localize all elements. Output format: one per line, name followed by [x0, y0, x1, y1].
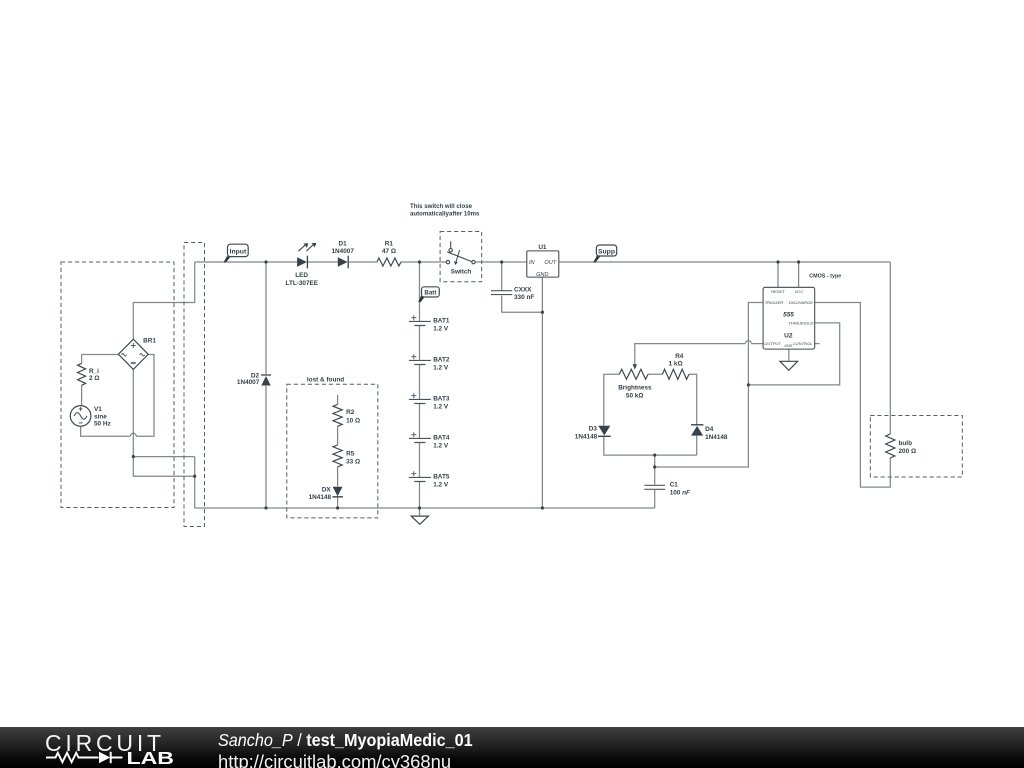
svg-text:1.2 V: 1.2 V: [433, 403, 449, 410]
svg-text:47 Ω: 47 Ω: [382, 248, 396, 255]
svg-text:R1: R1: [385, 241, 394, 248]
svg-text:LED: LED: [295, 272, 308, 279]
svg-text:1.2 V: 1.2 V: [433, 481, 449, 488]
svg-text:10 Ω: 10 Ω: [346, 417, 360, 424]
svg-text:1N4148: 1N4148: [575, 433, 598, 440]
svg-text:R_i: R_i: [89, 368, 99, 375]
svg-text:CONTROL: CONTROL: [793, 341, 813, 346]
svg-text:DX: DX: [322, 486, 332, 493]
svg-text:RESET: RESET: [771, 289, 785, 294]
svg-text:VCC: VCC: [795, 289, 804, 294]
svg-text:BAT1: BAT1: [433, 318, 450, 325]
svg-text:330 nF: 330 nF: [514, 294, 534, 301]
svg-text:C1: C1: [670, 481, 679, 488]
svg-text:CXXX: CXXX: [514, 286, 532, 293]
svg-text:GND: GND: [536, 272, 548, 278]
svg-text:2 Ω: 2 Ω: [89, 375, 99, 382]
svg-text:50 kΩ: 50 kΩ: [626, 392, 644, 399]
svg-text:automaticallyafter 10ms: automaticallyafter 10ms: [410, 211, 480, 218]
svg-text:Brightness: Brightness: [618, 385, 652, 392]
svg-text:TRIGGER: TRIGGER: [765, 300, 784, 305]
svg-text:GND: GND: [784, 344, 792, 348]
svg-text:IN: IN: [529, 260, 536, 266]
svg-text:33 Ω: 33 Ω: [346, 458, 360, 465]
svg-text:R4: R4: [675, 353, 684, 360]
svg-text:CMOS - type: CMOS - type: [809, 274, 841, 280]
svg-text:1.2 V: 1.2 V: [433, 364, 449, 371]
svg-text:OUTPUT: OUTPUT: [764, 341, 781, 346]
svg-text:BAT2: BAT2: [433, 357, 450, 364]
svg-text:BAT3: BAT3: [433, 396, 450, 403]
svg-text:lost & found: lost & found: [307, 377, 344, 384]
svg-text:LAB: LAB: [127, 749, 174, 768]
svg-text:LTL-307EE: LTL-307EE: [286, 280, 319, 287]
svg-text:OUT: OUT: [544, 260, 556, 266]
svg-text:sine: sine: [94, 413, 107, 420]
svg-text:D1: D1: [339, 241, 348, 248]
svg-text:50 Hz: 50 Hz: [94, 420, 111, 427]
svg-text:555: 555: [783, 311, 794, 318]
svg-text:BAT5: BAT5: [433, 474, 450, 481]
svg-text:1.2 V: 1.2 V: [433, 442, 449, 449]
svg-text:BR1: BR1: [143, 338, 156, 345]
svg-text:Batt: Batt: [424, 290, 436, 297]
svg-text:THRESHOLD: THRESHOLD: [788, 320, 813, 325]
svg-text:D3: D3: [589, 426, 598, 433]
svg-text:1N4148: 1N4148: [309, 494, 332, 501]
svg-text:DISCHARGE: DISCHARGE: [789, 300, 813, 305]
svg-text:1N4007: 1N4007: [332, 248, 355, 255]
svg-text:1 kΩ: 1 kΩ: [669, 360, 683, 367]
svg-text:U2: U2: [784, 332, 793, 339]
svg-text:D4: D4: [705, 426, 714, 433]
svg-text:R5: R5: [346, 450, 355, 457]
svg-text:Switch: Switch: [451, 268, 472, 275]
svg-text:Supp: Supp: [598, 248, 615, 255]
svg-text:U1: U1: [538, 244, 547, 251]
svg-text:200 Ω: 200 Ω: [899, 448, 917, 455]
svg-text:1N4007: 1N4007: [237, 379, 260, 386]
svg-text:This switch will close: This switch will close: [410, 203, 473, 210]
svg-text:BAT4: BAT4: [433, 435, 450, 442]
svg-text:R2: R2: [346, 409, 355, 416]
svg-text:bulb: bulb: [899, 440, 913, 447]
svg-text:1.2 V: 1.2 V: [433, 325, 449, 332]
svg-text:Input: Input: [230, 248, 247, 255]
svg-text:1N4148: 1N4148: [705, 434, 728, 441]
svg-text:V1: V1: [94, 406, 102, 413]
svg-text:100 nF: 100 nF: [670, 489, 691, 496]
